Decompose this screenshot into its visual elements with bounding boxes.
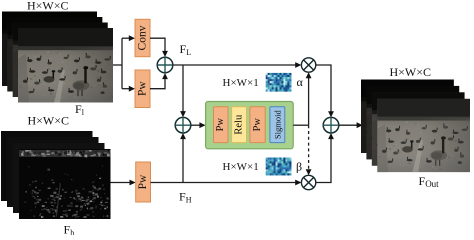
input stack F_h back layer 2 bbox=[7, 137, 99, 207]
wire split vertical (Conv/Pw branch) bbox=[121, 38, 123, 88]
wire sigmoid split dashed down to multiplier M2 bbox=[308, 125, 310, 171]
attention map beta (noise image) bbox=[266, 158, 292, 176]
input stack F_h front image bbox=[19, 149, 111, 219]
pw box Pw (bottom) bbox=[136, 162, 151, 202]
svg-text:H×W×C: H×W×C bbox=[28, 114, 70, 128]
conv box Conv bbox=[135, 19, 150, 56]
input stack F_l back layer 1 bbox=[2, 12, 97, 87]
svg-text:α: α bbox=[297, 75, 304, 89]
attention block container bbox=[206, 102, 294, 149]
svg-text:FH: FH bbox=[179, 190, 192, 205]
adder A2 bbox=[175, 117, 191, 133]
wire sigmoid output bbox=[293, 124, 308, 126]
input stack F_l back layer 2 bbox=[7, 17, 102, 92]
svg-text:Pw: Pw bbox=[215, 118, 226, 132]
svg-text:Sigmoid: Sigmoid bbox=[272, 110, 282, 140]
pw box Pw2 (in block) bbox=[250, 107, 265, 143]
svg-text:Pw: Pw bbox=[252, 118, 263, 132]
multiplier M2 bbox=[301, 175, 315, 189]
svg-text:β: β bbox=[296, 160, 302, 174]
wire F_H from image to Pw (bottom) bbox=[111, 182, 131, 184]
svg-text:H×W×1: H×W×1 bbox=[223, 77, 259, 89]
svg-text:Pw: Pw bbox=[137, 81, 149, 96]
wire F_L branch down to adder A2 bbox=[182, 65, 184, 112]
pw box Pw1 (in block) bbox=[214, 107, 229, 143]
wire multiplier M2 to adder A3 bbox=[316, 139, 331, 183]
multiplier M1 bbox=[301, 58, 315, 72]
svg-text:Conv: Conv bbox=[137, 25, 149, 50]
adder A1 bbox=[157, 57, 173, 73]
svg-text:H×W×C: H×W×C bbox=[390, 65, 432, 79]
input stack F_h back layer 3 bbox=[13, 143, 105, 213]
wire into Conv bbox=[122, 37, 130, 39]
input stack F_h back layer 1 bbox=[1, 131, 93, 201]
attention map alpha (noise image) bbox=[266, 73, 292, 92]
input stack F_l front image bbox=[18, 28, 113, 103]
output stack back layer 3 bbox=[372, 92, 465, 166]
output stack back layer 1 bbox=[361, 80, 454, 154]
wire Conv output to adder A1 bbox=[150, 38, 165, 51]
svg-text:Fh: Fh bbox=[64, 223, 75, 236]
output stack front image bbox=[377, 99, 470, 173]
svg-text:H×W×C: H×W×C bbox=[27, 0, 69, 13]
svg-text:Pw: Pw bbox=[137, 174, 149, 189]
output stack back layer 2 bbox=[366, 86, 459, 159]
adder A3 bbox=[323, 117, 339, 133]
sigmoid box Sigmoid bbox=[270, 107, 285, 143]
input stack F_l back layer 3 bbox=[13, 23, 108, 98]
svg-text:FOut: FOut bbox=[419, 174, 440, 189]
svg-text:Fl: Fl bbox=[75, 102, 85, 117]
wire F_H to multiplier M2 bbox=[151, 182, 297, 184]
wire adder A2 to attention block bbox=[191, 124, 200, 126]
wire multiplier M1 to adder A3 bbox=[316, 65, 331, 112]
svg-text:Relu: Relu bbox=[234, 114, 245, 135]
wire into Pw (top) bbox=[122, 88, 130, 90]
svg-text:FL: FL bbox=[180, 42, 192, 57]
svg-text:H×W×1: H×W×1 bbox=[223, 161, 259, 173]
wire from F_l image to split junction bbox=[113, 64, 122, 66]
wire adder A3 to output stack bbox=[339, 124, 358, 126]
wire sigmoid split up to multiplier M1 bbox=[308, 78, 310, 126]
wire F_L from adder A1 to multiplier M1 bbox=[173, 64, 296, 66]
pw box Pw (top) bbox=[135, 70, 150, 108]
wire Pw output to adder A1 bbox=[150, 79, 165, 89]
relu box Relu bbox=[232, 107, 247, 143]
wire F_H branch up to adder A2 bbox=[182, 139, 184, 183]
